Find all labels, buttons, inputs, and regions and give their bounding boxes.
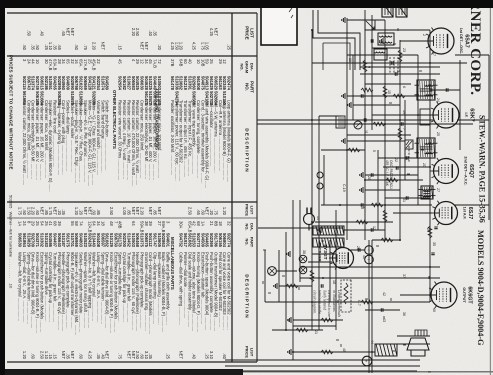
junction <box>311 221 313 223</box>
svg-text:Spring—turntable drive .......: Spring—turntable drive .................… <box>44 252 49 322</box>
table body rows group A <box>22 28 232 192</box>
svg-text:PRICE: PRICE <box>245 26 250 39</box>
svg-text:510391: 510391 <box>187 76 192 91</box>
wire x286 <box>279 285 312 287</box>
svg-text:504875: 504875 <box>200 76 205 91</box>
wire x115 <box>372 114 433 116</box>
svg-text:502369: 502369 <box>209 233 214 248</box>
svg-text:.35: .35 <box>31 44 36 50</box>
svg-text:Condenser: mica, 100 Mmf. ....: Condenser: mica, 100 Mmf. ..............… <box>157 100 162 178</box>
svg-text:32: 32 <box>227 221 232 226</box>
wire AVC top link y33 <box>459 60 461 150</box>
svg-text:.40: .40 <box>192 353 197 359</box>
wire x198 <box>385 197 430 199</box>
svg-text:NET: NET <box>70 351 75 360</box>
svg-text:.40: .40 <box>100 353 105 359</box>
svg-text:1A: 1A <box>18 221 23 226</box>
svg-text:506750: 506750 <box>113 233 118 248</box>
svg-text:1.20: 1.20 <box>22 351 27 360</box>
wire rect link y163 <box>329 240 331 302</box>
svg-text:18: 18 <box>218 221 223 226</box>
junction <box>417 114 419 116</box>
svg-text:561219: 561219 <box>183 76 188 91</box>
tube V4 6SJ7 first audio <box>431 201 458 226</box>
wire x295 <box>400 294 431 296</box>
svg-text:1st DET—OSC.: 1st DET—OSC. <box>459 28 463 54</box>
capacitor C7 <box>371 228 373 231</box>
svg-text:Resistor: carbon, 22,000 Ohms,: Resistor: carbon, 22,000 Ohms, ½ watt ..… <box>135 100 140 185</box>
svg-text:1.10: 1.10 <box>44 351 49 360</box>
svg-text:ilarly lettered: ilarly lettered <box>322 290 326 310</box>
svg-text:28: 28 <box>367 176 371 180</box>
svg-text:506575: 506575 <box>144 233 149 248</box>
svg-text:502254: 502254 <box>96 76 101 91</box>
svg-text:510605: 510605 <box>157 233 162 248</box>
svg-text:39: 39 <box>57 221 62 226</box>
svg-text:510523: 510523 <box>83 233 88 248</box>
svg-text:32: 32 <box>70 59 75 64</box>
tube V1 6SA7 converter <box>425 28 455 55</box>
svg-text:PRICE: PRICE <box>245 204 250 217</box>
svg-text:.35: .35 <box>153 30 158 36</box>
svg-text:68: 68 <box>53 221 58 226</box>
svg-text:D E S C R I P T I O N: D E S C R I P T I O N <box>245 274 250 317</box>
svg-text:6SQ7: 6SQ7 <box>468 164 474 178</box>
svg-text:.20: .20 <box>157 44 162 50</box>
ground G1 <box>380 38 383 44</box>
svg-text:506597: 506597 <box>100 233 105 248</box>
svg-text:25: 25 <box>436 132 440 136</box>
small choke box <box>405 140 413 149</box>
svg-text:.60: .60 <box>31 353 36 359</box>
svg-text:NET: NET <box>126 351 131 360</box>
svg-text:NO.: NO. <box>245 239 250 246</box>
svg-text:.35: .35 <box>66 353 71 359</box>
svg-text:502300: 502300 <box>122 233 127 248</box>
svg-text:510440: 510440 <box>92 233 97 248</box>
svg-text:504586: 504586 <box>48 233 53 248</box>
svg-text:NET: NET <box>70 28 75 37</box>
svg-text:LIST: LIST <box>250 206 255 215</box>
svg-text:.15: .15 <box>53 353 58 359</box>
svg-text:22: 22 <box>96 59 101 64</box>
svg-text:Loop antenna (Model 9004-B) ..: Loop antenna (Model 9004-B) ............… <box>222 100 227 180</box>
svg-text:Coil—S.W. antenna ............: Coil—S.W. antenna ......................… <box>213 100 218 173</box>
svg-text:10: 10 <box>348 58 352 62</box>
ground G10 <box>288 317 291 323</box>
svg-text:4.25: 4.25 <box>170 42 175 51</box>
svg-text:36: 36 <box>402 312 406 316</box>
svg-text:41: 41 <box>48 221 53 226</box>
svg-text:.85: .85 <box>44 209 49 215</box>
tuning gang capacitor C1 section 2 <box>382 2 393 17</box>
capacitor C15 <box>434 227 437 229</box>
svg-text:504925: 504925 <box>135 76 140 91</box>
svg-text:.35: .35 <box>148 353 153 359</box>
svg-text:Drive—for dial drive (Md. 9004: Drive—for dial drive (Md. 9004-B) ......… <box>105 252 110 328</box>
svg-text:40: 40 <box>187 59 192 64</box>
svg-text:37B: 37B <box>170 59 175 67</box>
svg-text:Volume control and switch ....: Volume control and switch ..............… <box>96 100 101 175</box>
svg-text:PART: PART <box>250 81 255 93</box>
svg-text:65A,B: 65A,B <box>187 221 192 233</box>
svg-text:561478: 561478 <box>170 76 175 91</box>
svg-text:.25: .25 <box>227 44 232 50</box>
svg-text:504752: 504752 <box>179 233 184 248</box>
capacitor C1 <box>391 61 393 64</box>
svg-text:18: 18 <box>100 221 105 226</box>
svg-text:510574: 510574 <box>100 76 105 91</box>
svg-text:PRICE: PRICE <box>245 346 250 358</box>
svg-text:Phonograph motor 115 V., 60 cy: Phonograph motor 115 V., 60 cyc. .......… <box>131 252 136 330</box>
svg-text:510662: 510662 <box>179 76 184 91</box>
svg-text:504112: 504112 <box>148 233 153 247</box>
svg-text:C-19: C-19 <box>342 184 346 192</box>
ground G3 <box>348 102 351 108</box>
wire x120 <box>457 119 489 121</box>
loop antenna corner <box>313 10 360 70</box>
ground G4 <box>342 138 345 144</box>
svg-text:455 KC. I.F. PEAK: 455 KC. I.F. PEAK <box>385 160 389 187</box>
svg-text:35: 35 <box>432 242 436 246</box>
svg-text:Switch: band change ..........: Switch: band change ....................… <box>100 100 105 173</box>
svg-text:DIA.: DIA. <box>250 223 255 231</box>
scan edge black bar bottom <box>0 0 5 375</box>
svg-text:42: 42 <box>382 292 386 296</box>
svg-text:55: 55 <box>70 221 75 226</box>
svg-text:Coil—R.F. antenna ............: Coil—R.F. antenna ......................… <box>218 100 223 171</box>
resistor R2 <box>383 86 387 98</box>
svg-text:25: 25 <box>87 59 92 64</box>
svg-text:Crystal cartridge for pick-up: Crystal cartridge for pick-up ..........… <box>48 252 53 322</box>
svg-text:.25: .25 <box>44 44 49 50</box>
wire IF bus y75 <box>417 55 419 205</box>
svg-text:16: 16 <box>74 59 79 64</box>
junction <box>311 301 313 303</box>
svg-text:24: 24 <box>22 221 27 226</box>
svg-text:506630: 506630 <box>140 76 145 91</box>
wire x175 <box>365 174 418 176</box>
svg-text:45A,B: 45A,B <box>92 59 97 71</box>
svg-text:502474: 502474 <box>227 76 232 91</box>
capacitor C3 <box>364 118 366 121</box>
capacitor C12 <box>406 156 408 159</box>
svg-text:Cord—phonograph motor (Models: Cord—phonograph motor (Models ..........… <box>148 252 153 334</box>
svg-text:Speaker—elec. dynamic (Models: Speaker—elec. dynamic (Models 9004-F, G)… <box>48 100 53 192</box>
svg-text:Phonograph pick-up complete ..: Phonograph pick-up complete ............… <box>66 252 71 329</box>
tube V6 5Y3GT rectifier <box>329 247 354 270</box>
tube V5 6K6GT output <box>428 282 458 309</box>
svg-text:506468: 506468 <box>135 233 140 248</box>
svg-text:47A,B: 47A,B <box>48 59 53 71</box>
svg-text:NET: NET <box>53 207 58 216</box>
svg-text:LIST: LIST <box>250 28 255 38</box>
svg-text:74: 74 <box>79 221 84 226</box>
svg-text:.65: .65 <box>196 209 201 215</box>
svg-text:19: 19 <box>402 110 406 114</box>
junction <box>364 62 366 64</box>
wire power bus y207 <box>285 232 287 330</box>
speaker <box>407 330 429 356</box>
svg-text:C-7: C-7 <box>357 300 361 306</box>
svg-text:29: 29 <box>426 228 430 232</box>
svg-text:2.20: 2.20 <box>92 42 97 51</box>
svg-text:510551: 510551 <box>48 76 53 91</box>
wire filter link y174 <box>318 116 320 330</box>
svg-text:43: 43 <box>382 318 386 322</box>
svg-text:504371: 504371 <box>35 233 40 248</box>
junction <box>346 149 348 151</box>
small shield box below 6SK7 <box>420 109 430 125</box>
svg-text:561682: 561682 <box>187 233 192 248</box>
svg-text:45: 45 <box>148 59 153 64</box>
wire heater bus y181 <box>311 30 313 330</box>
ground G12 <box>342 17 345 23</box>
svg-text:510375: 510375 <box>140 233 145 248</box>
svg-text:Condenser: electrolytic, 30-50: Condenser: electrolytic, 30-50 Mf. .....… <box>31 100 36 179</box>
svg-text:39: 39 <box>148 221 153 226</box>
svg-text:561163: 561163 <box>218 76 223 90</box>
wire x344 <box>397 343 430 345</box>
svg-text:.60: .60 <box>222 353 227 359</box>
svg-text:NO.: NO. <box>245 83 250 91</box>
svg-text:54: 54 <box>39 221 44 226</box>
svg-text:68: 68 <box>196 221 201 226</box>
svg-text:506969: 506969 <box>74 233 79 248</box>
svg-text:LIST: LIST <box>250 348 255 357</box>
svg-text:502863: 502863 <box>161 233 166 248</box>
junction <box>311 29 313 31</box>
svg-text:Escutcheon—station tab .......: Escutcheon—station tab .................… <box>200 252 205 324</box>
svg-text:40: 40 <box>432 308 436 312</box>
svg-text:NET: NET <box>135 207 140 216</box>
wire audio link y115 <box>377 150 379 230</box>
svg-text:502954: 502954 <box>118 76 123 91</box>
filter capacitor C22 <box>362 356 372 366</box>
component value labels <box>302 34 440 352</box>
svg-text:64: 64 <box>131 221 136 226</box>
svg-text:25: 25 <box>35 221 40 226</box>
resistor R18 <box>296 328 308 332</box>
svg-text:Coil and wire assembly (Models: Coil and wire assembly (Models 9004-F, G… <box>205 100 210 188</box>
svg-text:46: 46 <box>362 255 366 259</box>
svg-text:2: 2 <box>422 34 426 36</box>
svg-text:Cone and voice coil for M-5023: Cone and voice coil for M-502302 .......… <box>227 252 232 330</box>
svg-text:30A: 30A <box>179 221 184 229</box>
resistor R16 <box>386 178 398 182</box>
svg-text:in illustrations: in illustrations <box>332 290 336 312</box>
resistor R1 <box>398 50 402 62</box>
svg-text:510302: 510302 <box>39 233 44 248</box>
svg-text:510452: 510452 <box>126 233 131 248</box>
oscillator coil L2 <box>378 33 394 45</box>
capacitor C17 <box>371 39 373 42</box>
svg-text:17: 17 <box>432 52 436 56</box>
table column rule x218 <box>7 217 257 219</box>
ground G6 <box>318 227 321 233</box>
svg-text:correspond to sim-: correspond to sim- <box>327 290 331 318</box>
svg-text:69A,B: 69A,B <box>161 221 166 233</box>
wire x105 <box>353 104 400 106</box>
wire x190 <box>365 189 400 191</box>
svg-text:42: 42 <box>192 221 197 226</box>
junction <box>285 329 287 331</box>
svg-text:Cond.: 3-section, trimmer asse: Cond.: 3-section, trimmer assembly for .… <box>200 100 205 184</box>
dial lamp P3 <box>268 267 277 276</box>
svg-text:502709: 502709 <box>31 233 36 248</box>
capacitor C4 <box>401 122 403 125</box>
svg-text:Knob—volume or tuning 9004-B,: Knob—volume or tuning 9004-B, F) .......… <box>109 252 114 333</box>
svg-text:504601: 504601 <box>166 233 171 248</box>
svg-text:Grommet—rubber, chassis mtg. .: Grommet—rubber, chassis mtg. ...........… <box>144 252 149 331</box>
svg-text:Condenser: electrolytic, 30-50: Condenser: electrolytic, 30-50 Mf. .....… <box>144 100 149 179</box>
svg-text:24: 24 <box>436 98 440 102</box>
svg-text:NO.: NO. <box>240 63 245 70</box>
svg-text:29: 29 <box>135 59 140 64</box>
svg-text:Screw—No. 8 x ½ self tapping .: Screw—No. 8 x ½ self tapping ...........… <box>87 252 92 328</box>
wire x330 <box>272 329 323 331</box>
svg-text:Transformer: output for M-5023: Transformer: output for M-502302 .......… <box>179 100 184 181</box>
wire x302 <box>265 301 430 303</box>
svg-text:Spring—dial cable tension ....: Spring—dial cable tension ..............… <box>26 252 31 324</box>
power transformer T4 primary winding <box>313 226 344 235</box>
wire x240 <box>372 239 400 241</box>
svg-text:Escutcheon for push-button (Mo: Escutcheon for push-button (Models .....… <box>113 252 118 332</box>
pushbutton switch dashes <box>390 57 409 162</box>
wire osc line y121 <box>371 15 373 130</box>
filter capacitor C20 <box>365 246 374 255</box>
svg-text:D E S C R I P T I O N: D E S C R I P T I O N <box>245 128 250 171</box>
svg-text:34: 34 <box>96 221 101 226</box>
wire x120 <box>257 119 433 121</box>
switch contact S1b <box>317 183 323 189</box>
wire switch lead y169 <box>323 155 325 205</box>
junction <box>371 351 373 353</box>
svg-text:.15: .15 <box>48 353 53 359</box>
svg-text:Socket—octal, wafer ..........: Socket—octal, wafer ....................… <box>70 100 75 172</box>
svg-text:28: 28 <box>57 59 62 64</box>
svg-text:Resistor: carbon, 10 Meg., ½ w: Resistor: carbon, 10 Meg., ½ watt ......… <box>126 100 131 180</box>
svg-text:Knob—volume; also tone (Model: Knob—volume; also tone (Model ..........… <box>192 252 197 331</box>
svg-text:59: 59 <box>205 59 210 64</box>
svg-text:.50: .50 <box>74 44 79 50</box>
svg-text:506530: 506530 <box>18 233 23 248</box>
wire x48 <box>372 47 400 49</box>
svg-text:Coil: wave trap assembly .....: Coil: wave trap assembly ...............… <box>192 100 197 174</box>
wire x135 <box>347 134 411 136</box>
svg-text:NET: NET <box>39 207 44 216</box>
svg-text:20: 20 <box>422 163 426 167</box>
svg-text:MISCELLANEOUS PARTS: MISCELLANEOUS PARTS <box>170 237 175 290</box>
svg-text:63A,B: 63A,B <box>53 59 58 71</box>
svg-text:Resistor: line cord ..........: Resistor: line cord ....................… <box>53 100 58 167</box>
junction <box>311 119 313 121</box>
svg-text:510927: 510927 <box>126 76 131 91</box>
svg-text:27: 27 <box>436 188 440 192</box>
table column rule x202 <box>7 201 257 203</box>
svg-text:1.50: 1.50 <box>174 42 179 51</box>
svg-text:Loop antenna (Models 9004-F, G: Loop antenna (Models 9004-F, G) ........… <box>227 100 232 182</box>
svg-text:5: 5 <box>372 150 376 152</box>
svg-text:Condenser: paper, .01 Mf., 400: Condenser: paper, .01 Mf., 400 V. ......… <box>148 100 153 180</box>
wire B+ lead a y121 <box>371 240 373 373</box>
svg-text:Padder: oscillator, 3-30 Mmf.: Padder: oscillator, 3-30 Mmf. ..........… <box>170 100 175 175</box>
svg-text:59A,B: 59A,B <box>140 221 145 233</box>
wire x141 <box>347 140 405 142</box>
wire ground lead y228 <box>264 250 266 302</box>
wire screen bus y93 <box>399 40 401 240</box>
svg-text:502426: 502426 <box>87 233 92 248</box>
wire x271 <box>277 270 297 272</box>
svg-text:2.20: 2.20 <box>131 28 136 37</box>
wire x267 <box>300 266 440 268</box>
svg-text:Socket—phonograph motor plate: Socket—phonograph motor plate ..........… <box>79 252 84 332</box>
wire x41 <box>400 40 428 42</box>
svg-text:504509: 504509 <box>200 233 205 248</box>
svg-text:6: 6 <box>402 86 406 88</box>
scan edge black bar left <box>0 0 493 8</box>
wire x228 <box>258 227 343 229</box>
svg-text:38: 38 <box>302 250 306 254</box>
filter capacitor C21 <box>365 255 374 264</box>
capacitor C18 <box>361 94 363 97</box>
resistor R20 <box>321 318 333 322</box>
table body rows group B <box>18 207 232 360</box>
svg-text:510503: 510503 <box>131 233 136 248</box>
ground G8 <box>274 283 277 289</box>
svg-text:25: 25 <box>209 59 214 64</box>
svg-text:510187: 510187 <box>61 233 66 248</box>
svg-text:8B: 8B <box>213 221 218 226</box>
svg-text:2.50: 2.50 <box>39 351 44 360</box>
svg-text:NET: NET <box>66 28 71 37</box>
svg-text:21: 21 <box>209 221 214 226</box>
svg-text:4.25: 4.25 <box>87 351 92 360</box>
ground G11 <box>288 349 291 355</box>
svg-text:Switch: push-button ..........: Switch: push-button ....................… <box>105 100 110 171</box>
capacitor C6 <box>406 196 408 199</box>
wire B+ lead b y124 <box>368 240 370 373</box>
svg-text:.50: .50 <box>35 44 40 50</box>
svg-text:72: 72 <box>157 59 162 64</box>
wire x310 <box>365 309 400 311</box>
wire x74 <box>360 73 440 75</box>
svg-text:.60: .60 <box>79 353 84 359</box>
svg-text:504803: 504803 <box>79 233 84 248</box>
svg-text:2.20: 2.20 <box>140 207 145 216</box>
wire grid return bus y108 <box>384 20 386 240</box>
svg-text:Lettered terminals: Lettered terminals <box>337 289 341 318</box>
svg-text:45: 45 <box>118 59 123 64</box>
svg-text:.75: .75 <box>83 44 88 50</box>
svg-text:Output transformer (Model 9004: Output transformer (Model 9004-B) ......… <box>213 252 218 331</box>
tube V2 6SK7 IF amplifier <box>430 102 460 129</box>
svg-text:Speaker—6½ in. electro-dynamic: Speaker—6½ in. electro-dynamic (Md. ....… <box>74 252 79 335</box>
svg-text:504265: 504265 <box>53 76 58 91</box>
svg-text:.35: .35 <box>61 209 66 215</box>
resistor R13 <box>361 300 373 304</box>
svg-text:64B: 64B <box>179 59 184 67</box>
capacitor C14 <box>361 203 363 206</box>
svg-text:.20: .20 <box>79 209 84 215</box>
wire x250 <box>348 249 365 251</box>
svg-text:34: 34 <box>144 59 149 64</box>
ground G7 <box>287 251 290 257</box>
svg-text:12: 12 <box>372 226 376 230</box>
svg-text:GRAM: GRAM <box>245 61 250 74</box>
svg-text:38: 38 <box>144 221 149 226</box>
ground G5 <box>360 187 363 193</box>
